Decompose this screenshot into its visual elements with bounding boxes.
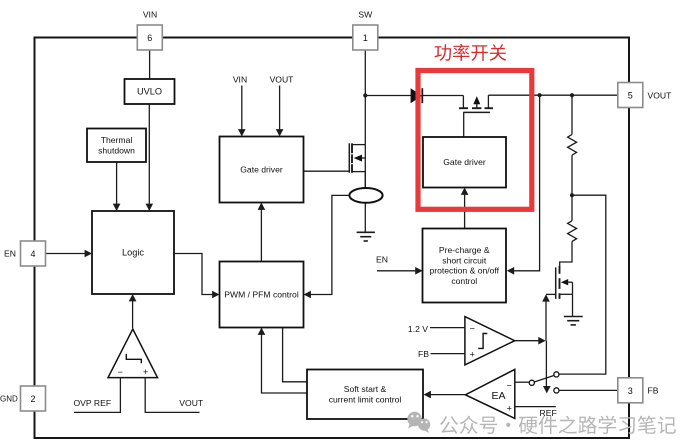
comparator U2 (PFM/rectifier control) — [465, 317, 515, 365]
block Logic — [92, 211, 174, 294]
pin 1 (SW) — [353, 25, 378, 50]
svg-text:1: 1 — [363, 33, 368, 43]
pin label VIN — [143, 10, 157, 20]
label VIN (gate driver supply) — [233, 75, 247, 85]
wire R1 to node FB-mid — [570, 155, 574, 197]
pin 6 (VIN) — [137, 25, 162, 50]
transistor Q1 (low-side switch) — [349, 143, 365, 232]
label EN (pre-charge input) — [376, 255, 388, 265]
svg-text:4: 4 — [30, 249, 35, 259]
transistor Q3 (feedback disconnect) — [556, 266, 573, 317]
pin 4 (EN) — [21, 241, 46, 266]
red label 功率开关 — [435, 44, 507, 61]
svg-text:SW: SW — [358, 10, 373, 20]
wire S1 lower contact to pin 3 — [559, 389, 618, 391]
svg-text:1.2 V: 1.2 V — [408, 324, 428, 334]
svg-text:Gate driver: Gate driver — [443, 157, 486, 167]
svg-text:VOUT: VOUT — [270, 75, 295, 85]
transistor Q2 (rectifying power switch) — [459, 95, 493, 112]
svg-text:UVLO: UVLO — [137, 87, 162, 97]
svg-text:−: − — [118, 367, 123, 377]
wire R2 to Q3 drain — [560, 241, 572, 266]
watermark icon — [407, 412, 430, 433]
block Gate driver (low-side) — [220, 137, 304, 203]
label VOUT (gate driver supply) — [270, 75, 295, 85]
wire VOUT to Gate driver — [276, 86, 284, 137]
svg-text:5: 5 — [628, 91, 633, 101]
svg-text:−: − — [470, 323, 475, 333]
svg-text:2: 2 — [30, 394, 35, 404]
wire Thermal shutdown to Logic — [113, 162, 121, 211]
svg-text:shutdown: shutdown — [98, 146, 135, 156]
svg-text:short circuit: short circuit — [442, 255, 487, 265]
block PWM / PFM control — [220, 262, 304, 328]
wire PWM to Soft start — [283, 328, 307, 382]
block Soft start / current limit — [307, 370, 423, 420]
wire SW net (pin 1 to power rail junction) — [363, 50, 367, 145]
svg-text:control: control — [451, 276, 477, 286]
wire pin 6 to UVLO — [149, 50, 151, 79]
wire comparator output — [515, 337, 546, 345]
current sense — [349, 188, 382, 203]
svg-text:6: 6 — [147, 33, 152, 43]
svg-text:EN: EN — [376, 255, 388, 265]
svg-text:Soft start &: Soft start & — [344, 384, 387, 394]
wire current sense to PWM / PFM control — [304, 195, 350, 298]
wire 1.2 V to comparator — [430, 327, 465, 329]
error amplifier EA — [465, 369, 514, 418]
wire pin 5 rail to resistor divider — [571, 95, 573, 134]
diode D1 — [411, 88, 464, 103]
svg-text:EN: EN — [4, 249, 16, 259]
block UVLO — [125, 79, 175, 104]
pin label GND — [0, 395, 18, 404]
block Pre-charge / short circuit protection — [423, 229, 507, 303]
svg-text:GND: GND — [0, 395, 18, 404]
wire UVLO to Logic — [146, 104, 154, 211]
pin label SW — [358, 10, 373, 20]
pin label FB — [648, 386, 659, 396]
svg-text:−: − — [507, 381, 512, 391]
wire EA inverting input to switch S1 — [515, 381, 529, 383]
ground (power stage) — [357, 232, 375, 241]
svg-text:VIN: VIN — [233, 75, 247, 85]
wire node FB-mid to R2 — [571, 195, 573, 221]
wire comparator output to Q3 gate — [542, 294, 556, 341]
pin 5 (VOUT) — [618, 83, 643, 108]
label 1.2 V — [408, 324, 428, 334]
wire Logic to PWM / PFM control — [174, 254, 220, 299]
wire EA non-inverting input (REF) — [515, 406, 556, 408]
label FB (comparator input) — [418, 349, 429, 359]
watermark text 公众号·硬件之路学习笔记 — [440, 416, 676, 434]
pin label EN — [4, 249, 16, 259]
wire Gate driver to Q1 gate — [304, 170, 350, 172]
wire power rail Q2 to pin 5 (VOUT) — [488, 93, 618, 97]
svg-text:Pre-charge &: Pre-charge & — [439, 245, 490, 255]
wire VOUT input to OVP comparator — [145, 378, 199, 413]
wire FB to comparator — [431, 353, 465, 355]
svg-text:EA: EA — [491, 390, 505, 402]
svg-text:VOUT: VOUT — [179, 398, 204, 408]
svg-text:PWM / PFM control: PWM / PFM control — [224, 290, 299, 300]
wire PWM to Gate driver — [258, 203, 266, 262]
block Thermal shutdown — [87, 129, 146, 163]
pin label VOUT — [648, 90, 673, 100]
wire power rail SW-junction to diode anode — [365, 95, 411, 97]
svg-text:VIN: VIN — [143, 10, 157, 20]
svg-text:Thermal: Thermal — [101, 135, 133, 145]
svg-text:FB: FB — [418, 349, 429, 359]
wire Q2 gate to Gate driver — [463, 112, 465, 137]
wire Soft start to PWM — [258, 328, 307, 394]
resistor R1 — [568, 135, 577, 156]
svg-text:+: + — [470, 349, 475, 359]
svg-text:VOUT: VOUT — [648, 90, 673, 100]
red highlight box (power switch) — [418, 71, 532, 210]
block Gate driver (rectifier) — [423, 137, 506, 188]
svg-text:Logic: Logic — [122, 248, 144, 258]
svg-text:+: + — [507, 403, 512, 413]
wire Pre-charge to rectifier Gate driver — [461, 188, 469, 229]
wire node FB-mid to switch S1 upper contact — [559, 195, 606, 374]
resistor R2 — [568, 221, 577, 242]
svg-text:FB: FB — [648, 386, 659, 396]
svg-text:+: + — [143, 367, 148, 377]
label OVP REF — [74, 398, 112, 408]
wire pin 4 (EN) to Logic — [46, 250, 92, 258]
OVP comparator — [108, 329, 158, 378]
ground (feedback) — [564, 317, 583, 325]
wire EN to Pre-charge block — [377, 267, 423, 275]
label VOUT (OVP input) — [179, 398, 204, 408]
pin 2 (GND) — [21, 386, 46, 411]
IC boundary — [35, 38, 630, 439]
wire VIN to Gate driver — [238, 86, 246, 137]
svg-text:current limit control: current limit control — [329, 395, 402, 405]
pin 3 (FB) — [618, 378, 643, 403]
wire VOUT rail to Pre-charge block — [507, 95, 540, 274]
wire OVP REF input — [74, 378, 120, 413]
svg-text:Gate driver: Gate driver — [240, 165, 283, 175]
svg-text:OVP REF: OVP REF — [74, 398, 112, 408]
wire OVP comparator to Logic — [129, 294, 137, 328]
wire comparator output to switch S1 control — [543, 341, 551, 394]
wire EA output to Soft start — [424, 391, 466, 399]
svg-text:3: 3 — [628, 386, 633, 396]
label REF — [540, 408, 557, 418]
switch S1 (FB / REF select) — [529, 372, 559, 393]
svg-text:protection & on/off: protection & on/off — [429, 266, 499, 276]
svg-text:REF: REF — [540, 408, 557, 418]
